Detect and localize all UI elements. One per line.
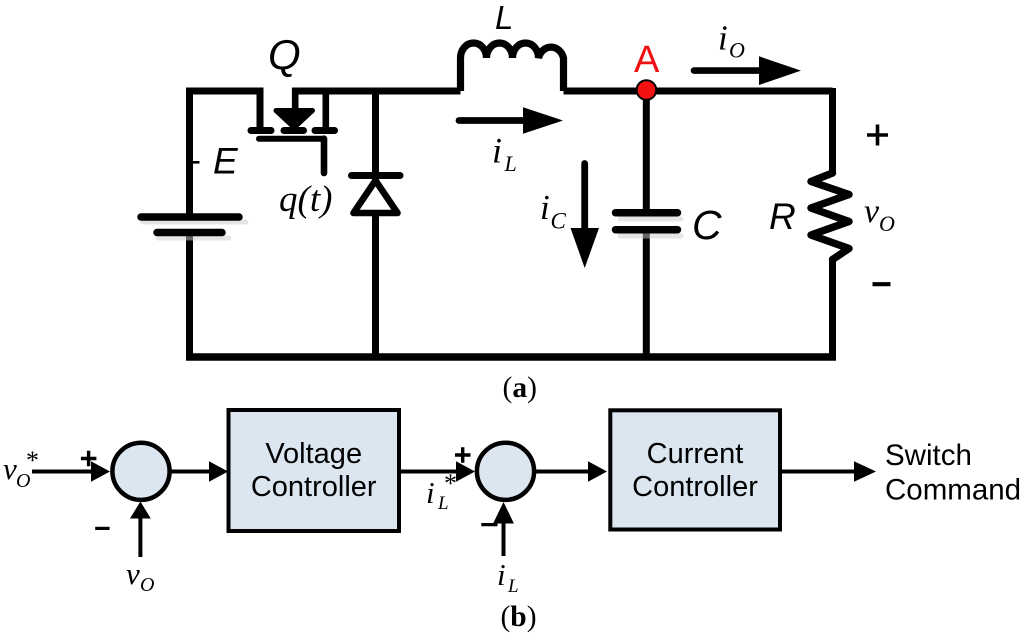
arrow voltage controller to summing 2 xyxy=(399,470,459,474)
plus sign (summing 1) xyxy=(81,451,97,467)
svg-text:O: O xyxy=(879,211,895,236)
arrow summing1 to voltage controller xyxy=(171,470,212,474)
svg-text:L: L xyxy=(507,576,519,597)
summing junction 1 xyxy=(112,443,169,500)
minus sign (summing 2) xyxy=(481,523,497,526)
svg-text:R: R xyxy=(769,196,796,237)
svg-text:C: C xyxy=(692,202,722,248)
svg-text:E: E xyxy=(213,141,239,182)
output arrow switch command xyxy=(780,470,857,474)
battery polarity tick xyxy=(191,161,200,164)
svg-text:Command: Command xyxy=(885,474,1021,507)
input arrow vO* xyxy=(32,470,93,474)
svg-text:Switch: Switch xyxy=(885,439,972,472)
svg-text:(a): (a) xyxy=(502,372,536,404)
wire left (battery branch) xyxy=(186,91,193,214)
transistor Q drain lead xyxy=(322,88,329,128)
battery E plate shadow xyxy=(143,222,246,238)
wire capacitor branch lower xyxy=(643,233,650,357)
svg-text:Voltage: Voltage xyxy=(265,438,362,470)
svg-text:*: * xyxy=(444,469,457,498)
battery E long plate xyxy=(141,213,239,221)
svg-text:v: v xyxy=(864,193,880,230)
svg-text:Controller: Controller xyxy=(632,471,758,503)
resistor R zigzag xyxy=(811,173,849,260)
inductor L winding xyxy=(461,43,564,91)
summing junction 2 xyxy=(477,443,534,500)
battery E short plate xyxy=(157,229,222,237)
svg-text:Current: Current xyxy=(647,438,744,470)
transistor Q channel dash middle xyxy=(284,127,304,134)
svg-text:*: * xyxy=(26,446,39,475)
minus sign (summing 1) xyxy=(95,527,109,530)
transistor Q channel dash right xyxy=(315,127,335,134)
svg-text:v: v xyxy=(126,556,140,591)
svg-text:Q: Q xyxy=(268,31,301,78)
feedback arrow iL xyxy=(502,520,506,556)
diode D triangle xyxy=(354,181,398,214)
wire top-left (battery to switch Q) xyxy=(190,91,261,130)
capacitor C plate shadow xyxy=(620,219,681,236)
svg-text:Controller: Controller xyxy=(251,471,377,503)
wire bottom xyxy=(186,353,836,361)
plus sign (summing 2) xyxy=(455,447,471,463)
block Current Controller xyxy=(610,410,780,529)
svg-text:L: L xyxy=(495,0,513,36)
wire diode branch xyxy=(372,91,379,357)
block Voltage Controller xyxy=(229,410,400,531)
arrow summing2 to current controller xyxy=(535,470,591,474)
wire capacitor branch upper xyxy=(643,91,650,209)
feedback arrow vO xyxy=(138,517,142,557)
svg-text:i: i xyxy=(497,557,506,592)
svg-text:i: i xyxy=(426,475,435,510)
wire top-right (inductor to load corner through node A) xyxy=(564,88,833,95)
svg-text:i: i xyxy=(540,188,550,227)
transistor Q channel dash left xyxy=(251,127,271,134)
wire right (load branch upper) xyxy=(829,88,836,173)
polarity plus (load) xyxy=(867,125,888,146)
svg-text:(b): (b) xyxy=(500,601,536,633)
svg-text:O: O xyxy=(140,574,154,596)
diode D cathode bar xyxy=(352,172,401,179)
wire right (load branch lower) xyxy=(829,260,836,358)
polarity minus (load) xyxy=(873,282,891,286)
transistor Q gate lead xyxy=(321,139,328,173)
svg-text:q(t): q(t) xyxy=(279,179,332,220)
current arrow iC xyxy=(581,164,588,236)
transistor Q body arrow lead xyxy=(292,88,299,113)
wire top-middle (switch Q to inductor, through diode node) xyxy=(292,88,461,95)
svg-text:O: O xyxy=(729,38,745,63)
svg-text:i: i xyxy=(718,18,728,57)
capacitor C top plate xyxy=(616,209,678,217)
node A (red junction dot) xyxy=(637,80,657,100)
current arrow iO xyxy=(694,67,765,74)
capacitor C bottom plate xyxy=(616,226,678,234)
transistor Q gate bar xyxy=(259,136,323,142)
current arrow iL xyxy=(459,117,530,124)
transistor Q arrow (filled triangle) xyxy=(276,111,313,128)
svg-text:A: A xyxy=(634,39,660,81)
svg-text:i: i xyxy=(492,131,502,171)
svg-text:C: C xyxy=(551,209,567,234)
svg-text:v: v xyxy=(3,451,17,486)
svg-text:L: L xyxy=(504,151,517,176)
